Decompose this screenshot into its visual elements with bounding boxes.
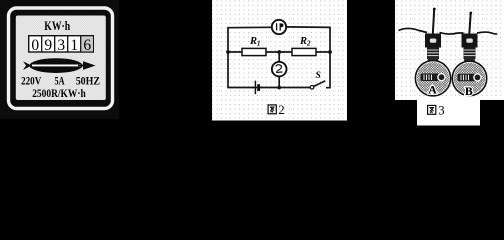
digit cell dividers xyxy=(42,36,81,52)
wire: center vertical branch xyxy=(278,52,280,88)
hanging wire left segment xyxy=(399,28,428,32)
svg-text:0: 0 xyxy=(31,37,39,54)
svg-text:2: 2 xyxy=(278,103,284,117)
battery cell xyxy=(253,87,263,89)
svg-text:3: 3 xyxy=(438,104,444,118)
svg-text:A: A xyxy=(428,85,437,97)
rotating disc with arrow xyxy=(23,58,96,73)
svg-text:9: 9 xyxy=(44,37,52,54)
bulb B lead-in wire xyxy=(469,12,471,34)
digit cell shading (last digit) xyxy=(81,36,93,51)
bulb A glass xyxy=(415,61,450,96)
hanging wire middle segment xyxy=(440,33,464,35)
svg-text:S: S xyxy=(316,71,321,81)
svg-text:2500R/KW·h: 2500R/KW·h xyxy=(32,86,86,100)
wire: middle branch xyxy=(228,51,330,53)
black page background xyxy=(0,0,504,148)
resistor R1 xyxy=(242,48,266,55)
svg-text:1: 1 xyxy=(70,37,78,54)
hanging wire right segment xyxy=(477,32,497,34)
svg-text:6: 6 xyxy=(83,37,91,54)
node right xyxy=(328,50,332,54)
caption 图3 xyxy=(428,105,436,114)
svg-text:3: 3 xyxy=(57,37,65,54)
figure 3 white background xyxy=(395,0,504,100)
svg-text:B: B xyxy=(465,86,473,98)
switch S xyxy=(310,86,314,90)
voltmeter V (center) xyxy=(272,62,287,77)
bulb B socket xyxy=(462,34,478,68)
svg-text:KW·h: KW·h xyxy=(44,19,70,33)
caption 图2 xyxy=(268,105,276,114)
digit register frame xyxy=(29,36,94,52)
meter W (wattmeter) on top wire xyxy=(272,20,286,34)
meter white rounded bezel xyxy=(9,8,113,109)
meter body black housing xyxy=(0,0,119,119)
wire: outer loop xyxy=(228,27,330,88)
node bottom xyxy=(277,86,281,90)
resistor R2 xyxy=(292,48,316,55)
meter face panel xyxy=(16,16,106,101)
bulb A socket xyxy=(425,34,441,68)
figure 2 white background xyxy=(212,0,347,121)
figure 3 caption notch background xyxy=(417,99,480,126)
bulb A lead-in wire xyxy=(433,8,435,34)
node middle xyxy=(277,50,281,54)
bulb B glass xyxy=(452,61,486,95)
node left xyxy=(226,50,230,54)
